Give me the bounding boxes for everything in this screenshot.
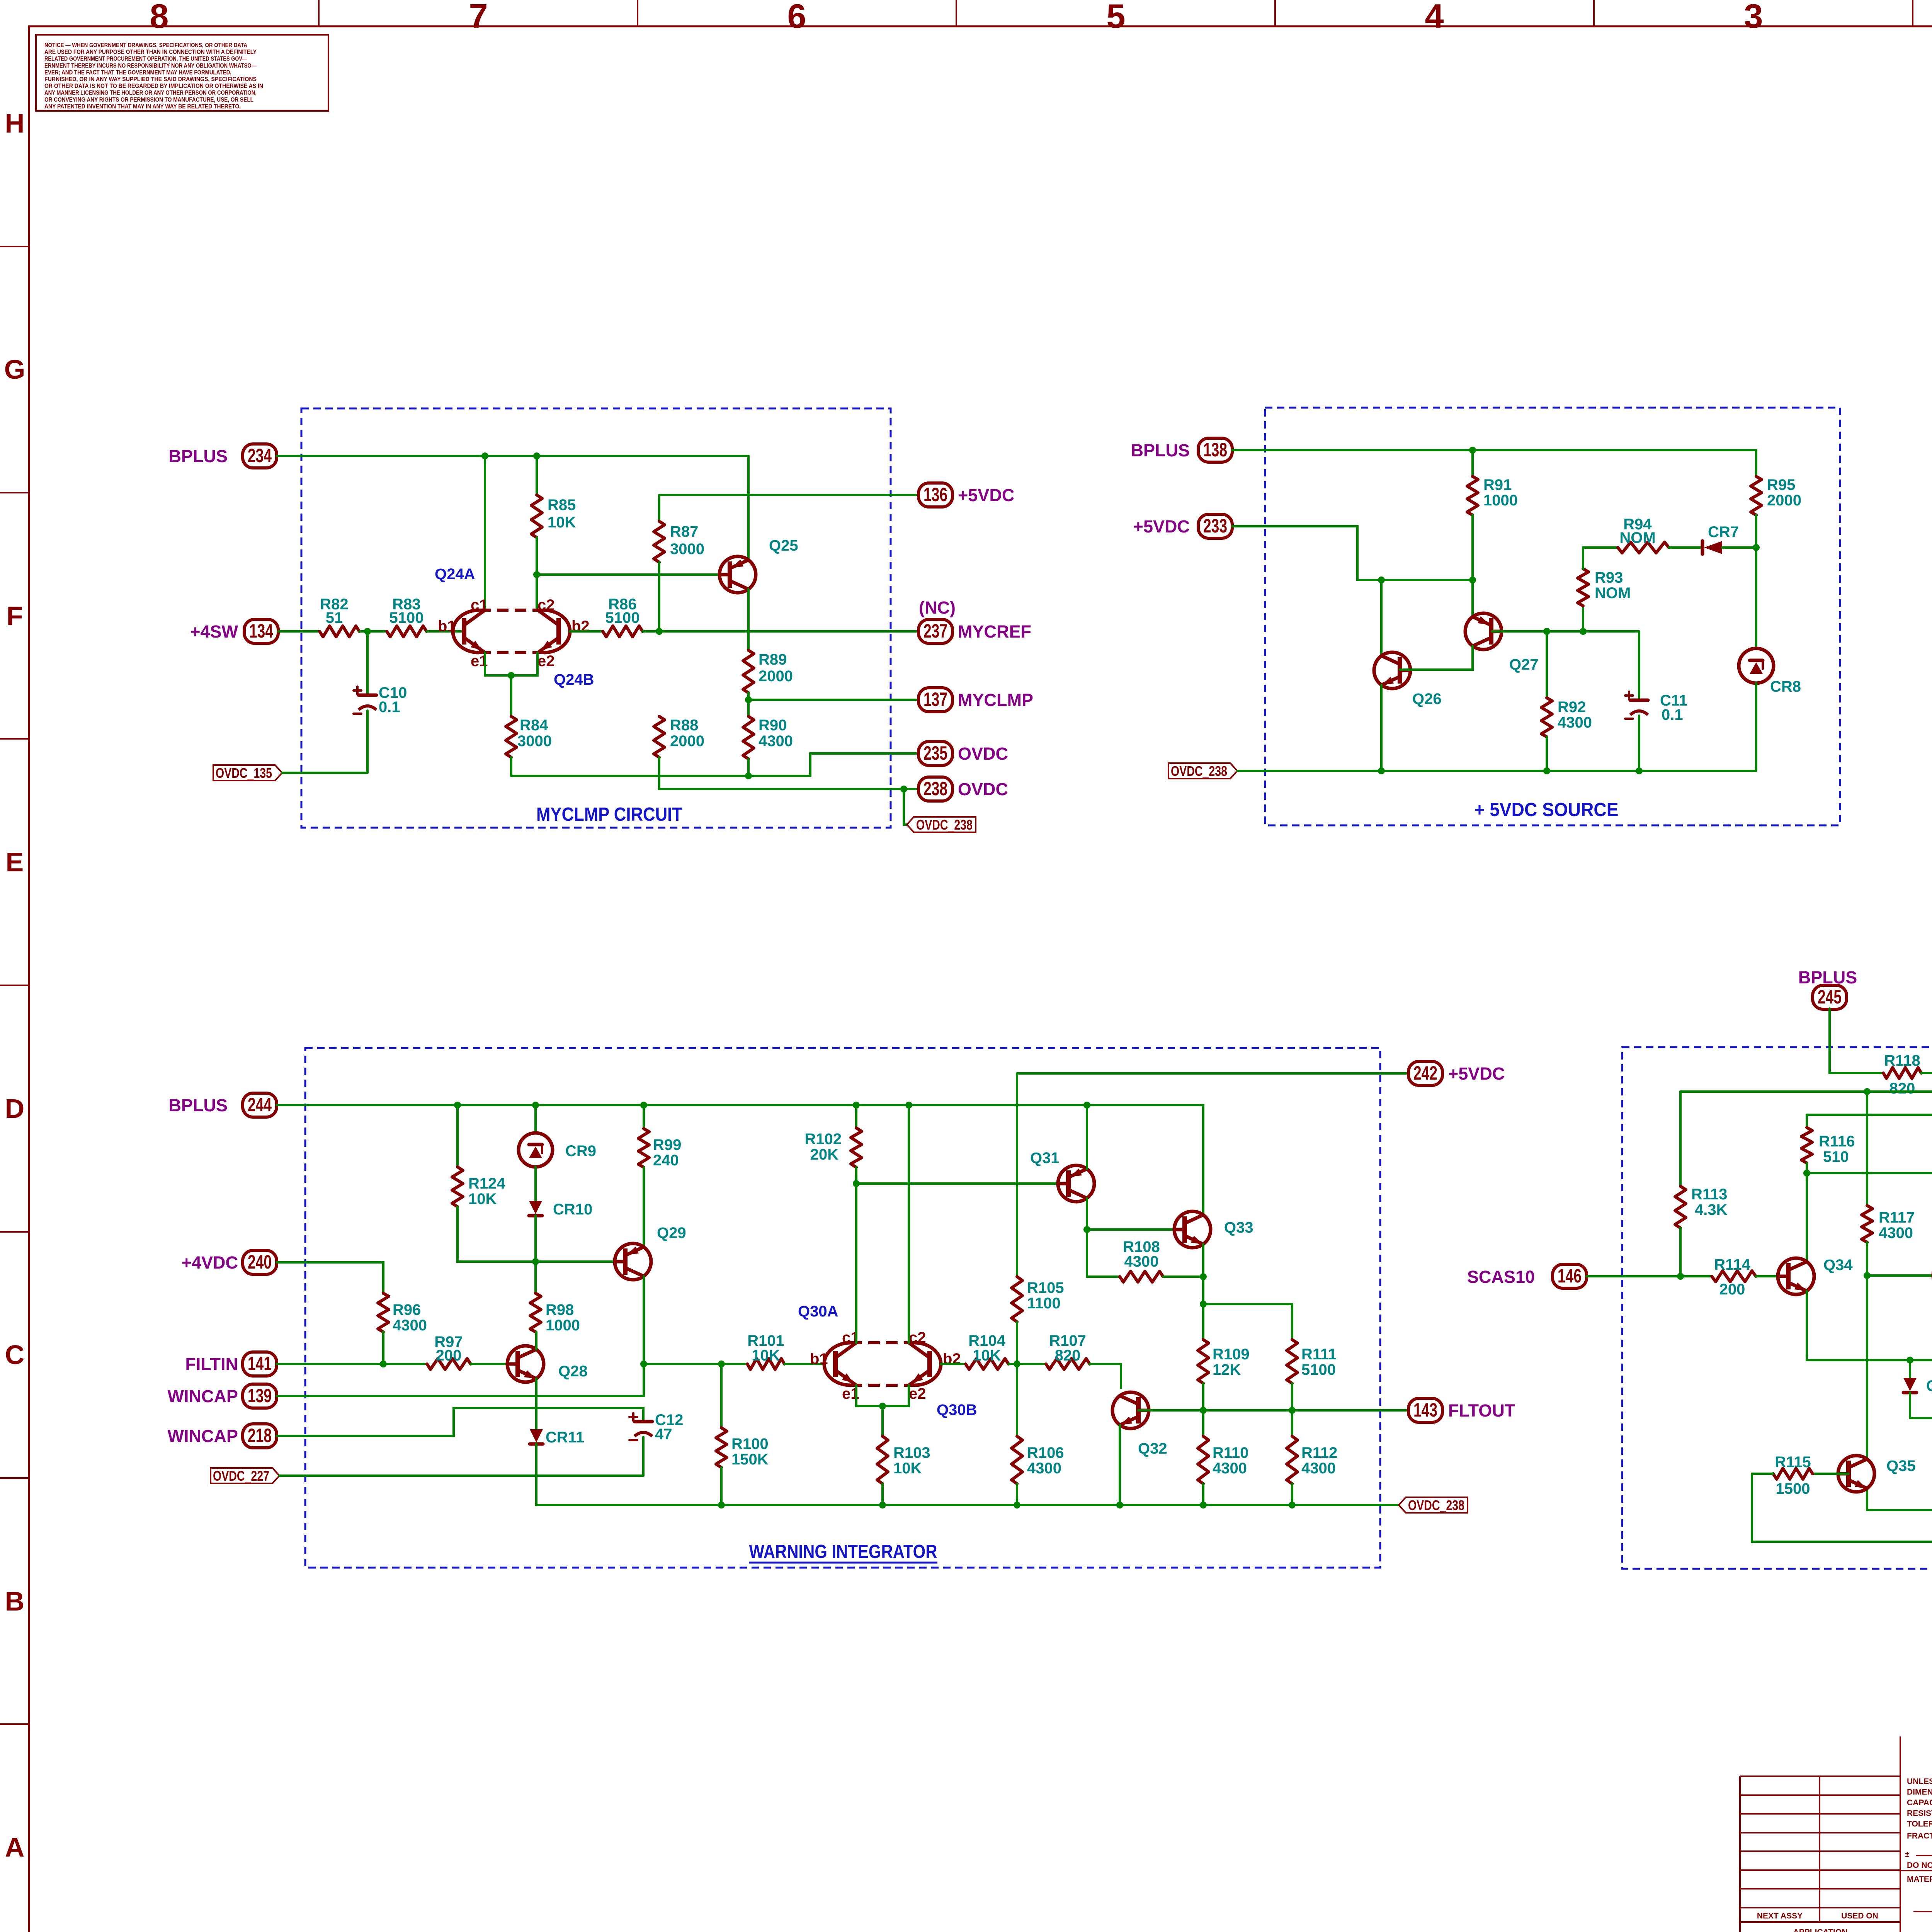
svg-text:Q24B: Q24B: [554, 671, 594, 688]
junction: [508, 672, 515, 679]
diode CR12: [1903, 1378, 1932, 1395]
wire +5VDC row: [659, 494, 918, 496]
svg-text:BPLUS: BPLUS: [1131, 440, 1190, 460]
wire e1 e2 join: [485, 653, 537, 675]
wire CR9 to CR10: [534, 1167, 537, 1201]
resistor R96: [378, 1293, 427, 1334]
wire R82 to R83: [359, 630, 387, 633]
svg-text:FLTOUT: FLTOUT: [1448, 1401, 1515, 1420]
wire R110 column: [1202, 1410, 1204, 1436]
svg-text:CR11: CR11: [546, 1429, 584, 1446]
wire Q27 base row: [1492, 630, 1639, 633]
svg-text:4300: 4300: [1213, 1460, 1247, 1477]
svg-text:235: 235: [923, 742, 947, 764]
junction: [532, 1102, 539, 1109]
wire Q28 emitter to CR11: [535, 1379, 537, 1429]
junction: [1469, 447, 1476, 454]
hierarchical label OVDC_238: [907, 817, 976, 832]
wire C12 bottom: [642, 1437, 645, 1476]
wire R117 to Q36 base junction: [1866, 1242, 1868, 1276]
resistor R112: [1287, 1436, 1337, 1484]
svg-text:245: 245: [1818, 986, 1842, 1008]
wire R90 bottom: [747, 759, 750, 776]
junction: [1378, 767, 1385, 774]
svg-text:OR OTHER DATA IS NOT TO BE REG: OR OTHER DATA IS NOT TO BE REGARDED BY I…: [44, 83, 263, 90]
svg-text:R93: R93: [1595, 569, 1623, 586]
hierarchical label OVDC_238: [1399, 1497, 1468, 1513]
transistor Q33: [1174, 1211, 1253, 1248]
port 134 +4SW: [190, 619, 278, 643]
svg-text:R115: R115: [1775, 1454, 1811, 1471]
wire SCAS10 row: [1587, 1275, 1712, 1277]
diode CR10: [529, 1201, 592, 1218]
svg-text:E: E: [6, 847, 24, 877]
port 235 OVDC: [918, 742, 1008, 765]
junction: [1289, 1502, 1296, 1509]
wire OVDC_227 row: [279, 1475, 643, 1477]
port 138 BPLUS: [1131, 438, 1232, 462]
svg-text:R105: R105: [1027, 1279, 1064, 1296]
svg-text:R90: R90: [759, 717, 787, 734]
svg-text:5100: 5100: [389, 609, 424, 626]
wire R115 to Q35 base: [1813, 1473, 1849, 1475]
svg-text:FILTIN: FILTIN: [185, 1354, 238, 1374]
wire 240 to R96: [277, 1262, 383, 1293]
svg-text:OVDC_135: OVDC_135: [216, 765, 272, 781]
wire C10 bottom: [366, 711, 369, 773]
junction: [1200, 1502, 1207, 1509]
capacitor C10: [354, 684, 407, 716]
wire OVDC row: [1237, 770, 1756, 772]
wire Q29 collector down: [643, 1276, 645, 1396]
svg-text:146: 146: [1558, 1265, 1582, 1287]
wire WINCAP 139 row: [277, 1395, 644, 1397]
svg-text:Q34: Q34: [1823, 1257, 1853, 1274]
wire BPLUS bus: [277, 455, 748, 457]
svg-text:R111: R111: [1301, 1346, 1337, 1363]
svg-text:4300: 4300: [1301, 1460, 1336, 1477]
svg-text:Q32: Q32: [1138, 1440, 1167, 1457]
svg-text:Q28: Q28: [558, 1363, 588, 1380]
svg-text:R106: R106: [1027, 1444, 1064, 1461]
svg-text:USED ON: USED ON: [1841, 1912, 1878, 1920]
wire 3530 row to R101: [644, 1363, 747, 1365]
capacitor C12: [629, 1412, 683, 1443]
junction: [879, 1502, 886, 1509]
svg-text:ERNMENT THEREBY INCURS NO RESP: ERNMENT THEREBY INCURS NO RESPONSIBILITY…: [44, 63, 257, 69]
junction: [1906, 1357, 1913, 1364]
junction: [1803, 1170, 1810, 1177]
resistor R107: [1046, 1332, 1090, 1369]
svg-text:1000: 1000: [546, 1317, 580, 1334]
resistor R97: [427, 1333, 471, 1369]
wire R99 to Q29 emitter: [643, 1167, 645, 1247]
svg-text:200: 200: [1719, 1281, 1745, 1298]
resistor R90: [743, 716, 793, 759]
svg-text:CR8: CR8: [1770, 678, 1801, 695]
wire CR11 to OVDC bus: [536, 1444, 1399, 1505]
svg-text:820: 820: [1055, 1347, 1081, 1364]
wire 245 to R118: [1830, 1009, 1883, 1073]
wire CR7 to junction: [1722, 546, 1756, 549]
svg-text:+5VDC: +5VDC: [958, 485, 1014, 505]
resistor R84: [506, 716, 552, 757]
wire C11 bottom: [1638, 716, 1640, 771]
wire R106 bottom: [1016, 1484, 1018, 1505]
svg-text:MYCREF: MYCREF: [958, 622, 1031, 641]
port 141 FILTIN: [185, 1352, 277, 1376]
wire to port 137: [748, 699, 918, 701]
svg-text:RELATED GOVERNMENT PROCUREMENT: RELATED GOVERNMENT PROCUREMENT OPERATION…: [44, 56, 247, 62]
svg-text:4: 4: [1425, 0, 1444, 35]
wire R102 to c1: [855, 1167, 857, 1343]
svg-text:20K: 20K: [810, 1146, 838, 1163]
svg-text:R87: R87: [670, 523, 698, 540]
resistor R118: [1883, 1052, 1921, 1097]
junction: [1469, 577, 1476, 583]
port 234 BPLUS: [168, 444, 277, 468]
resistor R86: [603, 596, 643, 637]
wire +5VDC 242 column: [1016, 1073, 1018, 1277]
junction: [853, 1102, 860, 1109]
svg-text:R91: R91: [1483, 476, 1512, 493]
resistor R91: [1467, 476, 1518, 515]
wire R112 bottom: [1291, 1484, 1293, 1505]
svg-text:+5VDC: +5VDC: [1448, 1064, 1505, 1083]
svg-text:CAPACITOR VALUES ARE IN uF: CAPACITOR VALUES ARE IN uF: [1907, 1798, 1932, 1807]
wire R88 to 238 row: [659, 757, 918, 789]
wire BPLUS to Q25 collector: [747, 456, 750, 560]
svg-text:2000: 2000: [670, 733, 704, 750]
wire +5VDC 242 row: [1017, 1072, 1408, 1075]
sheet box + 5VDC SOURCE: [1265, 408, 1840, 825]
svg-text:51: 51: [326, 609, 343, 626]
wire R117 top: [1866, 1092, 1868, 1206]
junction: [1116, 1502, 1123, 1509]
capacitor C11: [1625, 692, 1687, 723]
svg-text:c1: c1: [471, 597, 488, 614]
svg-text:2000: 2000: [759, 668, 793, 685]
svg-text:CR10: CR10: [553, 1201, 592, 1218]
svg-text:820: 820: [1889, 1080, 1915, 1097]
svg-text:137: 137: [923, 689, 947, 710]
svg-text:10K: 10K: [752, 1347, 780, 1364]
wire R104 to R107: [1009, 1363, 1046, 1365]
wire Q33 emitter: [1202, 1244, 1204, 1304]
svg-text:6: 6: [787, 0, 806, 35]
junction: [656, 628, 663, 635]
svg-text:R92: R92: [1558, 699, 1586, 716]
wire R85 top: [536, 456, 538, 495]
wire e1 e2 join Q30: [856, 1385, 909, 1406]
wire R105 bottom: [1016, 1322, 1018, 1364]
wire to R103: [881, 1406, 884, 1436]
svg-text:200: 200: [436, 1347, 462, 1364]
hierarchical label OVDC_238: [1168, 763, 1237, 779]
wire R110 bottom: [1202, 1484, 1204, 1505]
svg-text:R113: R113: [1691, 1186, 1727, 1203]
junction: [853, 1180, 860, 1187]
svg-text:+4VDC: +4VDC: [182, 1253, 238, 1272]
svg-text:RESISTOR VALUES ARE IN OHMS: RESISTOR VALUES ARE IN OHMS: [1907, 1809, 1932, 1818]
svg-text:OVDC_238: OVDC_238: [1171, 763, 1227, 779]
wire R106 column: [1016, 1364, 1018, 1436]
dual transistor Q30: [810, 1329, 961, 1402]
wire R91 bottom: [1471, 515, 1474, 580]
svg-text:A: A: [5, 1832, 25, 1862]
junction: [640, 1361, 647, 1367]
resistor R82: [320, 596, 359, 637]
svg-text:BPLUS: BPLUS: [168, 446, 228, 466]
svg-text:NOM: NOM: [1595, 585, 1631, 602]
wire Q25 emitter to R89: [747, 589, 750, 650]
transistor Q28: [507, 1346, 588, 1382]
svg-text:H: H: [5, 108, 25, 138]
resistor R92: [1541, 698, 1592, 737]
svg-text:7: 7: [469, 0, 488, 35]
wire Q26 emitter: [1380, 685, 1383, 771]
junction: [1014, 1502, 1020, 1509]
wire Q31 emitter: [1086, 1105, 1088, 1169]
wire C11 top: [1638, 631, 1640, 699]
svg-text:510: 510: [1823, 1148, 1849, 1165]
wire Q25 base: [537, 573, 730, 576]
wire c2 column: [908, 1105, 910, 1343]
wire R84 bottom: [510, 757, 512, 776]
wire R85 to c2: [536, 537, 538, 610]
wire b2 row to port 237: [643, 630, 918, 633]
svg-text:Q25: Q25: [769, 537, 798, 554]
svg-text:R110: R110: [1213, 1444, 1248, 1461]
svg-text:10K: 10K: [548, 514, 576, 531]
svg-text:5100: 5100: [1301, 1361, 1336, 1378]
svg-text:3000: 3000: [670, 541, 704, 558]
wire b2 to R104: [941, 1363, 966, 1365]
svg-text:244: 244: [248, 1094, 272, 1116]
svg-text:DIMENSIONS ARE IN INCHES: DIMENSIONS ARE IN INCHES: [1907, 1788, 1932, 1797]
wire R87 to b2 row: [658, 562, 660, 631]
svg-text:APPLICATION: APPLICATION: [1793, 1928, 1848, 1932]
svg-text:EVER; AND THE FACT THAT THE GO: EVER; AND THE FACT THAT THE GOVERNMENT M…: [44, 69, 231, 76]
port 242 +5VDC: [1408, 1061, 1505, 1085]
wire R87 top: [658, 495, 660, 521]
svg-text:Q33: Q33: [1224, 1219, 1253, 1236]
wire R115 loop to 2FSFAL: [1752, 1279, 1932, 1542]
wire R98 column: [534, 1262, 537, 1293]
resistor R117: [1862, 1206, 1915, 1242]
svg-text:141: 141: [248, 1353, 272, 1374]
resistor R101: [747, 1332, 784, 1369]
port 218 WINCAP: [168, 1424, 277, 1448]
junction: [1200, 1407, 1207, 1414]
svg-text:FRACTIONS: FRACTIONS: [1907, 1832, 1932, 1840]
wire R92 bottom: [1546, 737, 1548, 771]
svg-text:4300: 4300: [1558, 714, 1592, 731]
svg-text:3000: 3000: [517, 733, 552, 750]
svg-text:4300: 4300: [759, 733, 793, 750]
diode CR9: [519, 1133, 596, 1167]
wire R107 to Q32 collector: [1090, 1364, 1121, 1388]
wire R99 top: [643, 1105, 645, 1129]
svg-text:OVDC: OVDC: [958, 744, 1008, 764]
wire R91 top: [1471, 450, 1474, 476]
svg-text:MYCLMP: MYCLMP: [958, 690, 1033, 710]
svg-text:±: ±: [1905, 1850, 1910, 1859]
svg-text:ARE USED FOR ANY PURPOSE OTHER: ARE USED FOR ANY PURPOSE OTHER THAN IN C…: [44, 49, 257, 56]
wire Q31 to R108 row: [1087, 1230, 1120, 1277]
resistor R99: [638, 1129, 681, 1169]
port 240 +4VDC: [182, 1250, 277, 1274]
svg-text:R89: R89: [759, 651, 787, 668]
wire R100 bottom: [720, 1468, 723, 1505]
wire c1 drop: [484, 456, 486, 610]
svg-text:5100: 5100: [605, 609, 640, 626]
svg-text:238: 238: [923, 778, 947, 799]
svg-text:237: 237: [923, 620, 947, 642]
port 137 MYCLMP: [918, 688, 1033, 712]
port 136 +5VDC: [918, 483, 1014, 507]
svg-text:R88: R88: [670, 717, 698, 734]
wire Q27 collector to Q26 base: [1400, 646, 1473, 670]
svg-text:150K: 150K: [731, 1451, 769, 1468]
wire OVDC row to 235 step: [511, 753, 918, 776]
svg-text:b1: b1: [438, 618, 456, 635]
wire C14 row left: [1807, 1172, 1932, 1174]
svg-text:MATERIAL: MATERIAL: [1907, 1875, 1932, 1884]
svg-text:NOTICE — WHEN GOVERNMENT DRAWI: NOTICE — WHEN GOVERNMENT DRAWINGS, SPECI…: [44, 42, 247, 49]
wire R94 to CR7: [1669, 546, 1702, 549]
junction: [879, 1403, 886, 1410]
wire R113 bottom: [1679, 1228, 1682, 1276]
wire R112 column: [1291, 1410, 1293, 1436]
dual transistor Q24: [438, 597, 590, 670]
transistor Q26: [1374, 652, 1442, 707]
svg-text:242: 242: [1413, 1062, 1437, 1084]
resistor R115: [1773, 1454, 1813, 1497]
svg-text:240: 240: [248, 1251, 272, 1273]
wire R97 to Q28 base: [471, 1363, 518, 1365]
junction: [1543, 767, 1550, 774]
svg-text:Q29: Q29: [657, 1225, 686, 1242]
svg-text:C: C: [5, 1340, 25, 1370]
transistor Q25: [719, 537, 798, 593]
svg-text:R84: R84: [520, 717, 548, 734]
junction: [1677, 1273, 1684, 1280]
port 139 WINCAP: [168, 1384, 277, 1408]
svg-text:Q27: Q27: [1509, 656, 1539, 673]
wire Q26 collector: [1380, 580, 1383, 656]
svg-text:Q30A: Q30A: [798, 1303, 838, 1320]
svg-text:3: 3: [1744, 0, 1763, 35]
svg-text:47: 47: [655, 1426, 672, 1443]
svg-text:Q26: Q26: [1412, 690, 1442, 707]
svg-text:Q35: Q35: [1886, 1458, 1916, 1475]
svg-text:233: 233: [1203, 515, 1227, 537]
svg-text:Q30B: Q30B: [937, 1401, 977, 1418]
wire 233 to row: [1232, 526, 1473, 580]
resistor R108: [1120, 1238, 1163, 1282]
wire OVDC_135: [282, 772, 367, 774]
wire R124 bottom to base row: [457, 1207, 625, 1262]
sheet box WARNING INTEGRATOR: [305, 1048, 1380, 1568]
svg-text:CR9: CR9: [565, 1143, 596, 1160]
svg-text:NOM: NOM: [1619, 529, 1655, 546]
junction: [1200, 1273, 1207, 1280]
junction: [1200, 1301, 1207, 1308]
svg-text:10K: 10K: [973, 1347, 1001, 1364]
wire R93 bottom stub: [1582, 606, 1584, 631]
port 244 BPLUS: [168, 1093, 277, 1117]
svg-text:SCAS10: SCAS10: [1467, 1267, 1535, 1287]
wire Q34 emitter: [1807, 1291, 1932, 1360]
svg-text:ANY MANNER LICENSING THE HOLDE: ANY MANNER LICENSING THE HOLDER OR ANY O…: [44, 90, 257, 96]
resistor R106: [1012, 1436, 1064, 1484]
svg-text:OVDC_238: OVDC_238: [916, 817, 973, 833]
svg-text:TOLERANCES ON: TOLERANCES ON: [1907, 1820, 1932, 1828]
svg-text:R117: R117: [1879, 1209, 1915, 1226]
wire R111 top row: [1203, 1304, 1292, 1340]
svg-text:R112: R112: [1301, 1444, 1337, 1461]
svg-text:134: 134: [249, 620, 273, 642]
svg-text:NEXT ASSY: NEXT ASSY: [1757, 1912, 1803, 1920]
wire R124 top: [456, 1105, 459, 1167]
wire Q31 collector: [1086, 1198, 1088, 1230]
wire CR8 bottom: [1755, 683, 1757, 771]
svg-text:e2: e2: [537, 653, 555, 670]
wire Q32 base row FLTOUT: [1138, 1409, 1408, 1412]
svg-text:e2: e2: [909, 1385, 926, 1402]
junction: [745, 696, 752, 703]
junction: [1864, 1272, 1871, 1279]
svg-text:R116: R116: [1819, 1133, 1855, 1150]
resistor R95: [1751, 476, 1801, 515]
wire R89 to R90: [747, 693, 750, 716]
wire to OVDC_238 label: [904, 789, 907, 825]
resistor R93: [1578, 569, 1631, 606]
wire R116 top: [1806, 1115, 1808, 1128]
svg-text:b1: b1: [810, 1350, 828, 1367]
svg-text:R100: R100: [731, 1435, 769, 1452]
wire Q35 emitter row: [1867, 1488, 1932, 1510]
svg-text:B: B: [5, 1586, 25, 1616]
svg-text:234: 234: [248, 445, 272, 466]
svg-text:BPLUS: BPLUS: [168, 1095, 228, 1115]
wire c1 R102 column: [855, 1105, 857, 1128]
wire R93 top to R94 row: [1583, 548, 1618, 569]
resistor R85: [531, 495, 576, 537]
transistor Q27: [1465, 613, 1539, 673]
svg-text:OVDC_238: OVDC_238: [1408, 1497, 1464, 1513]
wire R114 to Q34 base: [1756, 1275, 1788, 1277]
wire CR9 top: [534, 1105, 537, 1133]
svg-text:R96: R96: [393, 1301, 421, 1318]
svg-text:ANY PATENTED INVENTION THAT MA: ANY PATENTED INVENTION THAT MAY IN ANY W…: [44, 103, 241, 110]
resistor R113: [1675, 1186, 1728, 1228]
transistor Q29: [615, 1225, 686, 1280]
svg-text:1100: 1100: [1027, 1295, 1061, 1312]
wire BPLUS row: [1232, 449, 1756, 451]
svg-text:DO NOT SCALE THIS DRAWING: DO NOT SCALE THIS DRAWING: [1907, 1861, 1932, 1870]
wire Q33 base row: [1087, 1228, 1185, 1231]
svg-text:G: G: [4, 354, 25, 384]
transistor Q34: [1778, 1257, 1853, 1294]
diode CR11: [530, 1429, 584, 1446]
junction: [718, 1502, 725, 1509]
svg-text:10K: 10K: [468, 1190, 497, 1207]
svg-text:2000: 2000: [1767, 492, 1801, 509]
port 143 FLTOUT: [1408, 1398, 1515, 1422]
svg-text:10K: 10K: [893, 1460, 922, 1477]
